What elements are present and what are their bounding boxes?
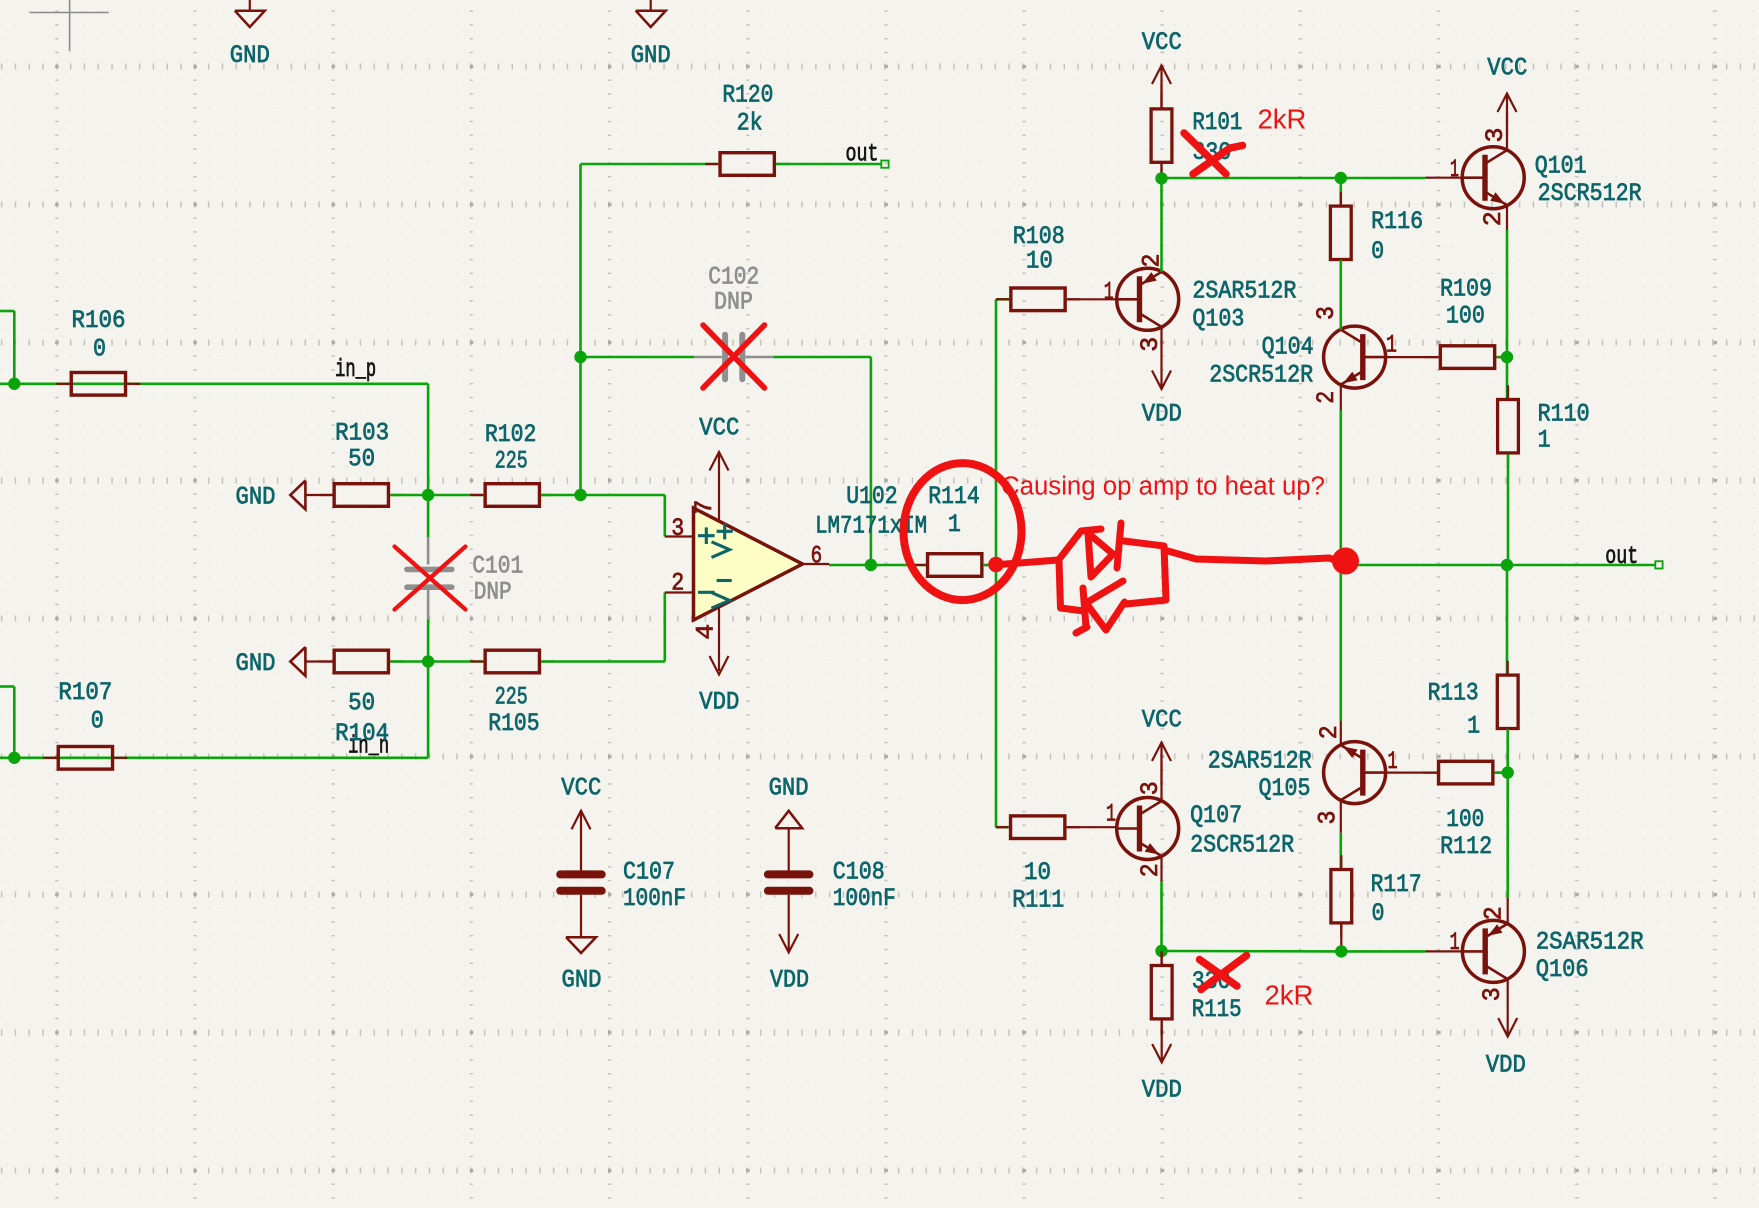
- svg-text:R103: R103: [335, 419, 389, 448]
- svg-text:VDD: VDD: [699, 688, 739, 717]
- svg-text:R111: R111: [1012, 886, 1064, 915]
- svg-text:2SAR512R: 2SAR512R: [1208, 747, 1312, 776]
- svg-text:1: 1: [1106, 800, 1116, 829]
- svg-text:3: 3: [1478, 987, 1507, 1001]
- svg-text:2: 2: [1479, 211, 1508, 226]
- svg-text:2: 2: [671, 569, 684, 598]
- svg-text:GND: GND: [769, 774, 809, 803]
- svg-text:Q103: Q103: [1192, 305, 1244, 334]
- svg-text:Q101: Q101: [1535, 152, 1587, 181]
- svg-text:VCC: VCC: [1142, 706, 1182, 735]
- svg-text:VCC: VCC: [1142, 28, 1182, 57]
- svg-text:R115: R115: [1192, 995, 1242, 1024]
- svg-text:C107: C107: [623, 858, 675, 887]
- svg-text:R104: R104: [335, 719, 389, 748]
- svg-text:50: 50: [348, 445, 375, 474]
- svg-text:100nF: 100nF: [623, 884, 686, 913]
- svg-text:1: 1: [1450, 155, 1459, 184]
- svg-text:2k: 2k: [737, 109, 763, 138]
- svg-text:Causing op amp to heat up?: Causing op amp to heat up?: [1001, 473, 1325, 501]
- svg-text:100: 100: [1446, 302, 1485, 331]
- svg-text:2SCR512R: 2SCR512R: [1209, 361, 1313, 390]
- svg-text:4: 4: [691, 624, 720, 640]
- svg-text:100nF: 100nF: [833, 884, 896, 913]
- svg-text:R101: R101: [1192, 108, 1242, 137]
- svg-text:2: 2: [1315, 725, 1344, 739]
- svg-text:3: 3: [1312, 306, 1341, 320]
- svg-text:2SAR512R: 2SAR512R: [1192, 277, 1296, 306]
- svg-text:3: 3: [1481, 128, 1510, 143]
- svg-text:1: 1: [948, 510, 961, 539]
- svg-text:R116: R116: [1371, 207, 1423, 236]
- svg-text:in_p: in_p: [335, 355, 376, 384]
- svg-text:R110: R110: [1538, 400, 1590, 429]
- svg-text:1: 1: [1450, 928, 1460, 957]
- svg-text:7: 7: [690, 500, 719, 515]
- svg-text:GND: GND: [236, 483, 276, 512]
- svg-text:1: 1: [1538, 426, 1551, 455]
- svg-text:0: 0: [93, 335, 106, 364]
- svg-text:out: out: [1605, 542, 1638, 571]
- svg-text:out: out: [846, 140, 879, 169]
- svg-text:2kR: 2kR: [1265, 980, 1314, 1011]
- svg-text:2: 2: [1312, 391, 1341, 404]
- svg-text:R106: R106: [72, 306, 126, 335]
- svg-text:VDD: VDD: [770, 966, 809, 995]
- svg-text:C101: C101: [472, 551, 523, 580]
- svg-text:2SAR512R: 2SAR512R: [1536, 928, 1644, 957]
- svg-text:1: 1: [1104, 278, 1114, 307]
- svg-text:VDD: VDD: [1142, 1076, 1182, 1105]
- svg-text:50: 50: [348, 689, 375, 718]
- svg-text:LM7171xIM: LM7171xIM: [815, 512, 927, 541]
- svg-text:R114: R114: [928, 482, 980, 511]
- svg-text:2: 2: [1480, 906, 1509, 920]
- svg-text:0: 0: [1372, 899, 1385, 928]
- svg-text:R109: R109: [1440, 275, 1492, 304]
- svg-text:0: 0: [1371, 237, 1384, 266]
- svg-text:0: 0: [91, 707, 104, 736]
- svg-text:1: 1: [1467, 712, 1480, 741]
- svg-text:3: 3: [1136, 781, 1165, 795]
- svg-text:Q106: Q106: [1536, 955, 1589, 984]
- svg-text:C108: C108: [833, 858, 885, 887]
- svg-text:Q104: Q104: [1262, 333, 1314, 362]
- svg-text:GND: GND: [631, 41, 671, 70]
- svg-text:10: 10: [1024, 858, 1051, 887]
- svg-text:DNP: DNP: [714, 288, 753, 317]
- svg-text:R102: R102: [485, 420, 537, 449]
- svg-text:R112: R112: [1440, 832, 1492, 861]
- svg-text:225: 225: [495, 447, 528, 476]
- svg-text:R117: R117: [1371, 870, 1422, 899]
- svg-text:100: 100: [1446, 805, 1484, 834]
- svg-text:2SCR512R: 2SCR512R: [1190, 831, 1294, 860]
- svg-text:R113: R113: [1428, 679, 1479, 708]
- svg-text:Q107: Q107: [1190, 801, 1242, 830]
- svg-text:1: 1: [1386, 331, 1397, 360]
- svg-text:Q105: Q105: [1259, 774, 1311, 803]
- svg-text:VDD: VDD: [1142, 400, 1182, 429]
- svg-text:2SCR512R: 2SCR512R: [1538, 179, 1642, 208]
- svg-text:10: 10: [1026, 247, 1053, 276]
- svg-text:VCC: VCC: [699, 414, 739, 443]
- svg-text:VCC: VCC: [561, 774, 601, 803]
- svg-text:R120: R120: [722, 81, 773, 110]
- svg-text:VDD: VDD: [1486, 1051, 1526, 1080]
- svg-text:6: 6: [811, 542, 823, 571]
- svg-text:3: 3: [671, 514, 684, 543]
- svg-text:R107: R107: [58, 678, 112, 707]
- svg-text:3: 3: [1314, 811, 1343, 825]
- svg-text:GND: GND: [562, 966, 602, 995]
- svg-text:U102: U102: [846, 482, 898, 511]
- svg-text:R105: R105: [488, 709, 540, 738]
- svg-text:GND: GND: [236, 649, 276, 678]
- svg-text:225: 225: [495, 683, 528, 712]
- svg-text:2kR: 2kR: [1258, 104, 1307, 135]
- svg-text:VCC: VCC: [1487, 54, 1527, 83]
- svg-text:DNP: DNP: [474, 578, 512, 607]
- svg-text:GND: GND: [230, 41, 270, 70]
